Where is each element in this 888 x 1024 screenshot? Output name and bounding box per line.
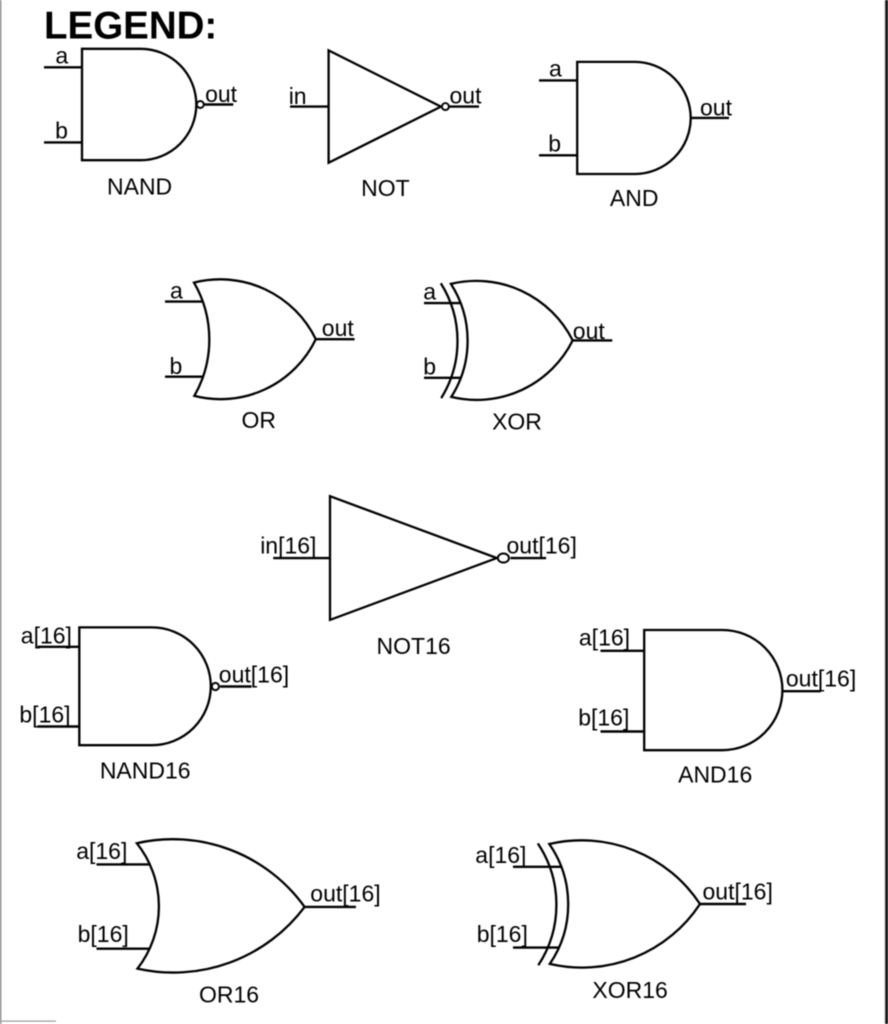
svg-text:in[16]: in[16] (260, 533, 316, 559)
wire NOT input in (290, 105, 329, 107)
not16-gate NOT16 bubble (498, 554, 509, 563)
svg-text:in: in (289, 83, 307, 109)
svg-text:b: b (548, 131, 561, 157)
svg-text:LEGEND:: LEGEND: (44, 5, 217, 48)
nand16-gate NAND16 body (79, 627, 211, 745)
svg-text:out: out (573, 318, 606, 344)
wire AND16 input b (601, 730, 645, 732)
svg-text:out[16]: out[16] (703, 879, 773, 905)
xor16-gate XOR16 outer arc (538, 843, 557, 965)
svg-text:out[16]: out[16] (310, 881, 380, 907)
svg-text:XOR: XOR (492, 408, 542, 434)
svg-text:NAND: NAND (107, 173, 172, 199)
nand-gate NAND bubble (197, 101, 204, 108)
svg-text:out: out (205, 81, 238, 107)
not-gate NOT bubble (442, 103, 449, 110)
svg-text:AND16: AND16 (678, 762, 752, 788)
svg-text:b: b (55, 118, 68, 144)
frame right black edge (886, 0, 888, 1024)
wire XOR16 output (700, 903, 746, 905)
wire NAND16 input a (38, 646, 80, 648)
wire OR16 input a (97, 863, 150, 865)
wire AND input a (539, 79, 577, 81)
wire AND input b (539, 154, 577, 156)
not-gate NOT body (329, 50, 441, 162)
wire XOR input a (424, 302, 460, 304)
or16-gate OR16 body (137, 839, 305, 972)
svg-text:b: b (170, 353, 183, 379)
wire AND output (691, 117, 729, 119)
svg-text:a: a (549, 56, 562, 82)
nand16-gate NAND16 bubble (212, 683, 219, 690)
svg-text:AND: AND (610, 185, 659, 211)
wire NAND16 output (220, 685, 252, 687)
wire XOR16 input a (513, 866, 561, 868)
svg-text:NOT: NOT (361, 175, 410, 201)
wire XOR input b (424, 377, 460, 379)
wire NOT16 output (511, 557, 547, 559)
wire AND16 input a (601, 650, 645, 652)
wire XOR output (573, 339, 613, 341)
and16-gate AND16 body (644, 630, 782, 750)
wire XOR16 input b (513, 946, 558, 948)
svg-text:out: out (700, 94, 733, 120)
svg-text:NAND16: NAND16 (100, 758, 191, 784)
svg-text:b[16]: b[16] (578, 704, 629, 730)
xor-gate XOR body (451, 281, 573, 400)
nand-gate NAND body (82, 49, 196, 160)
svg-text:XOR16: XOR16 (592, 977, 667, 1003)
wire OR16 output (305, 906, 356, 908)
frame bottom-left gray line (0, 1021, 56, 1022)
wire OR16 input b (97, 948, 150, 950)
svg-text:b: b (423, 353, 436, 379)
svg-text:out[16]: out[16] (507, 533, 577, 559)
wire NOT output (449, 105, 479, 107)
svg-text:out[16]: out[16] (786, 666, 856, 692)
wire AND16 output (782, 690, 821, 692)
wire OR input b (165, 376, 203, 378)
and-gate AND body (577, 62, 691, 174)
svg-text:out: out (322, 315, 355, 341)
frame left gray edge (0, 0, 1, 1024)
wire NAND input b (44, 141, 82, 143)
svg-text:b[16]: b[16] (78, 921, 129, 947)
svg-text:a[16]: a[16] (475, 842, 526, 868)
svg-text:b[16]: b[16] (19, 702, 70, 728)
svg-text:OR: OR (242, 407, 277, 433)
svg-text:out: out (450, 82, 483, 108)
not16-gate NOT16 body (330, 496, 497, 620)
svg-text:a: a (55, 43, 68, 69)
svg-text:NOT16: NOT16 (377, 633, 451, 659)
wire NOT16 input (273, 557, 330, 559)
svg-text:OR16: OR16 (199, 981, 259, 1007)
svg-text:a: a (423, 279, 436, 305)
svg-text:a[16]: a[16] (579, 624, 630, 650)
xor-gate XOR outer arc (441, 283, 458, 398)
xor16-gate XOR16 body (549, 840, 700, 967)
svg-text:a[16]: a[16] (76, 838, 127, 864)
wire NAND input a (44, 66, 82, 68)
wire OR input a (165, 300, 202, 302)
wire NAND16 input b (38, 725, 80, 727)
svg-text:a[16]: a[16] (21, 622, 72, 648)
or-gate OR body (194, 279, 316, 399)
svg-text:a: a (170, 277, 183, 303)
svg-text:out[16]: out[16] (219, 662, 289, 688)
svg-text:b[16]: b[16] (477, 921, 528, 947)
wire NAND output (204, 103, 234, 105)
wire OR output (316, 338, 355, 340)
